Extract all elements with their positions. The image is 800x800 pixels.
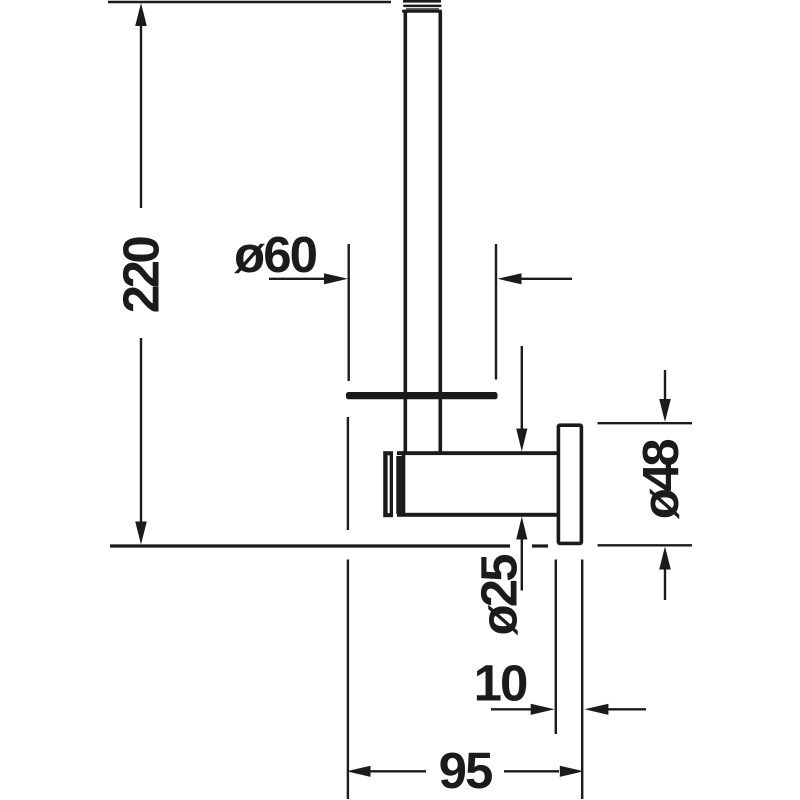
wall flange <box>558 425 581 543</box>
spindle cap <box>402 0 442 13</box>
wall baseline <box>110 544 510 547</box>
svg-text:95: 95 <box>439 742 492 799</box>
spindle left side <box>403 12 407 453</box>
dim ø25 lower arrow <box>516 517 527 540</box>
dim 95 left extension line segments <box>347 417 349 530</box>
svg-text:ø25: ø25 <box>471 555 528 636</box>
dim 95 left arrow <box>347 766 371 777</box>
dim 10 right extension line / 95 right extension <box>581 560 583 800</box>
top extension line <box>108 1 391 4</box>
arm end cap ring <box>396 456 402 514</box>
dim ø25 upper arrow <box>516 429 527 452</box>
dim ø48 bottom extension line <box>598 544 693 546</box>
dim ø60 right extension line <box>495 244 497 380</box>
dim ø60 left extension line <box>348 244 350 381</box>
dim 10 left extension line <box>555 560 557 735</box>
dim 95 right arrow <box>560 766 584 777</box>
paper roll bar <box>346 392 498 399</box>
arm top edge <box>397 451 558 455</box>
dim ø60 right arrow <box>498 273 522 284</box>
svg-text:220: 220 <box>113 237 170 314</box>
dim 95 right line <box>504 770 559 772</box>
dim ø48 top extension line <box>598 422 693 424</box>
dim ø48 top arrow <box>664 370 666 400</box>
dim 220 lower line <box>140 338 142 523</box>
arm end cap slab <box>383 451 393 517</box>
svg-text:ø48: ø48 <box>632 440 689 520</box>
dim 220 upper arrow <box>135 3 147 26</box>
svg-text:10: 10 <box>474 655 527 712</box>
dim 10 left arrow <box>491 708 533 710</box>
arm left edge <box>402 451 406 516</box>
dim 10 right arrow <box>584 704 608 715</box>
spindle right side <box>438 12 442 453</box>
dim ø25 upper line <box>521 346 523 430</box>
dim ø48 bottom arrow <box>659 547 671 570</box>
dim 220 lower arrow <box>135 522 147 545</box>
svg-text:ø60: ø60 <box>234 226 317 283</box>
arm bottom edge <box>397 513 558 517</box>
dim ø60 left arrow <box>269 278 327 280</box>
